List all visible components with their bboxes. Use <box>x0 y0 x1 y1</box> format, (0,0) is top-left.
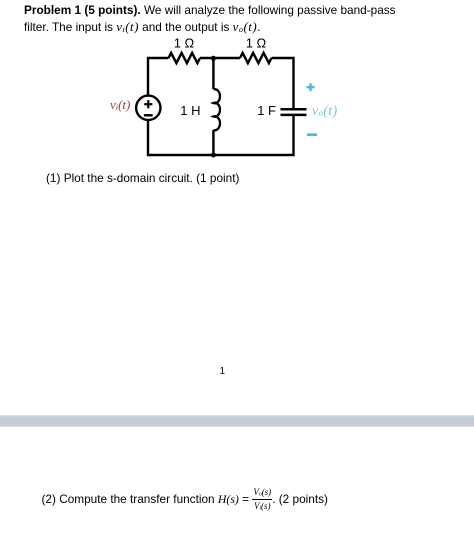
voltage source Vs (v_i) <box>136 96 160 120</box>
wire: top middle segment <box>200 57 240 59</box>
circuit schematic <box>0 0 474 200</box>
resistor R1 (1 Ohm) <box>169 53 201 63</box>
page number 1 <box>220 366 226 377</box>
label v_i(t) (dark red) <box>110 97 130 113</box>
wire: inductor to bottom rail <box>212 130 214 155</box>
minus polarity mark (output, cyan) <box>307 133 317 136</box>
svg-text:1 F: 1 F <box>257 103 276 118</box>
page-break gray band <box>0 415 474 427</box>
svg-text:1 Ω: 1 Ω <box>246 36 267 51</box>
node A (top junction dot) <box>211 56 216 61</box>
wire: source bottom to bottom rail, bottom rail, capacitor to bottom rail <box>148 115 294 155</box>
capacitor C1 (1 F) plates <box>281 108 307 111</box>
wire: node A to inductor <box>212 58 214 89</box>
question (2) text with transfer function <box>42 488 328 513</box>
wire: top-right segment <box>272 58 294 108</box>
svg-text:1 Ω: 1 Ω <box>174 36 195 51</box>
inductor L1 (1 H) <box>213 89 220 130</box>
question (1) text <box>46 171 239 185</box>
plus polarity mark (output, cyan) <box>307 83 315 91</box>
label v_o(t) (cyan) <box>312 102 337 120</box>
svg-text:1 H: 1 H <box>180 103 200 118</box>
resistor R2 (1 Ohm) <box>240 53 272 63</box>
wire: top-left segment <box>148 58 169 95</box>
problem title text <box>24 3 464 37</box>
node B (bottom junction dot) <box>211 153 216 158</box>
